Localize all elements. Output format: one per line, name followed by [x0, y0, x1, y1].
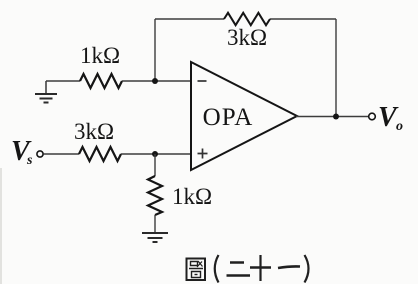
ground G1 (top left)	[35, 81, 57, 103]
caption: hanzi SHI (ten)	[250, 266, 271, 269]
op-amp minus pin mark	[198, 80, 207, 82]
caption: hanzi TU (figure) drawn as strokes	[187, 259, 206, 281]
scan artifact: faint left edge	[0, 168, 2, 284]
svg-text:OPA: OPA	[203, 104, 254, 131]
wire: Vs terminal to R 3kOhm	[44, 153, 80, 155]
op-amp plus pin mark	[198, 149, 208, 159]
wire: node down to R 1kOhm vertical	[154, 154, 156, 176]
wire: feedback left vertical drop to inverting node	[154, 19, 156, 81]
svg-text:1kΩ: 1kΩ	[172, 184, 212, 209]
resistor 3kOhm (input)	[79, 147, 121, 161]
resistor 1kOhm (to ground, vertical)	[148, 176, 162, 215]
node: non-inverting input junction	[152, 151, 158, 157]
node: inverting input junction	[152, 78, 158, 84]
resistor 1kOhm (inverting input)	[80, 74, 122, 88]
wire: R 1kOhm to inverting input of op-amp	[122, 80, 191, 82]
node: output junction with feedback	[333, 114, 339, 120]
terminal Vo	[369, 113, 376, 120]
wire: feedback right vertical drop to output node	[335, 19, 337, 117]
wire: R 3kOhm to non-inverting input	[121, 153, 191, 155]
resistor 3kOhm feedback	[224, 13, 270, 25]
svg-text:1kΩ: 1kΩ	[80, 43, 120, 68]
wire: ground to R 1kOhm	[46, 80, 80, 82]
ground G2 (bottom)	[142, 233, 168, 242]
wire: op-amp output	[296, 116, 369, 118]
wire: feedback top left segment	[155, 18, 224, 20]
svg-text:3kΩ: 3kΩ	[227, 25, 267, 50]
caption: hanzi YI (one)	[278, 266, 300, 268]
caption: open parenthesis	[215, 255, 219, 283]
svg-text:s: s	[26, 153, 33, 168]
wire: feedback top right segment	[270, 18, 336, 20]
op-amp U1 OPA	[191, 62, 297, 170]
terminal Vs	[37, 151, 43, 157]
caption: close parenthesis	[305, 255, 309, 283]
caption: hanzi ER (two)	[230, 261, 244, 264]
svg-text:o: o	[396, 119, 403, 134]
wire: R 1kOhm to ground	[154, 215, 156, 232]
svg-text:3kΩ: 3kΩ	[74, 119, 114, 144]
